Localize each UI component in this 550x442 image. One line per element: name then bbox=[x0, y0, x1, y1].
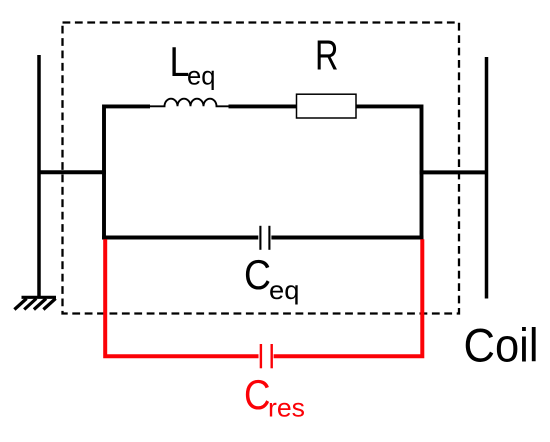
capacitor C_res plates bbox=[261, 344, 272, 368]
wire right stub bbox=[420, 170, 489, 174]
coil boundary dashed box bbox=[63, 23, 460, 314]
capacitor C_res red branch left vertical bbox=[105, 239, 258, 356]
svg-text:C: C bbox=[244, 371, 271, 418]
svg-text:eq: eq bbox=[269, 275, 300, 305]
svg-text:Coil: Coil bbox=[464, 319, 539, 372]
wire left branch vertical bbox=[104, 106, 150, 239]
svg-text:C: C bbox=[244, 251, 271, 298]
inductor L_eq bbox=[150, 99, 229, 107]
capacitor C_eq plates bbox=[260, 226, 269, 250]
capacitor C_res red branch right vertical bbox=[274, 239, 423, 356]
right terminal wire bbox=[485, 57, 489, 299]
wire between inductor and resistor bbox=[229, 104, 298, 108]
label C_res bbox=[244, 371, 305, 423]
svg-text:R: R bbox=[315, 32, 339, 79]
wire middle right (from C_eq) bbox=[271, 236, 423, 240]
resistor R bbox=[297, 94, 357, 118]
left terminal wire bbox=[37, 55, 41, 297]
ground bbox=[14, 297, 56, 309]
wire right branch vertical bbox=[357, 106, 422, 239]
svg-text:res: res bbox=[268, 393, 305, 423]
svg-text:eq: eq bbox=[187, 61, 216, 91]
label C_eq bbox=[244, 251, 300, 305]
wire left stub bbox=[38, 170, 107, 174]
label L_eq bbox=[170, 38, 216, 91]
wire middle left (to C_eq) bbox=[102, 236, 258, 240]
